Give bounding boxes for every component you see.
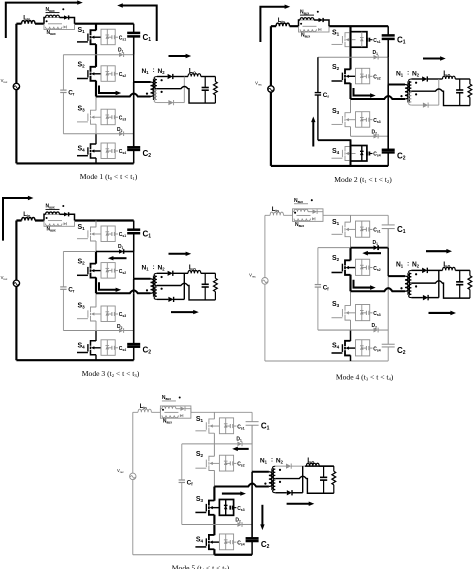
secondary dot (top) xyxy=(279,469,281,471)
wire: bottom rail (right) xyxy=(351,165,389,167)
wire: bottom rail (left) xyxy=(133,554,215,556)
aux winding Naux (top) xyxy=(44,15,64,24)
body diode of s2 xyxy=(106,263,110,279)
wire: S3 source to D2 node xyxy=(350,127,352,137)
wire: rail primary to hump xyxy=(387,85,389,100)
svg-text:D1: D1 xyxy=(373,240,379,246)
snubber box of s2 xyxy=(219,455,233,471)
svg-text:D2: D2 xyxy=(117,324,123,330)
snubber box of s3 xyxy=(101,306,115,322)
current arrow: left through D1 xyxy=(367,252,381,254)
snubber box of s1 xyxy=(101,226,115,242)
wire: S1 drain from top rail xyxy=(95,221,97,228)
current arrow: up through Cf xyxy=(312,121,314,147)
transformer primary N1 xyxy=(134,82,154,96)
wire: Cf bottom return to S4 xyxy=(318,140,351,147)
wire: left input rail xyxy=(270,26,272,166)
svg-text:S3: S3 xyxy=(196,496,204,503)
diode DR2 xyxy=(157,297,184,302)
wire: S1 source to S2 drain xyxy=(213,433,215,444)
aux block outline xyxy=(44,214,75,226)
switch S4 MOSFET xyxy=(195,535,219,549)
wire: S2 source down xyxy=(95,81,97,97)
secondary dot (top) xyxy=(415,273,417,275)
snubber box of s1 xyxy=(101,29,115,45)
wire: top rail xyxy=(271,25,388,27)
capacitor C1 xyxy=(127,24,140,55)
wire: rail hump to C2 xyxy=(133,97,135,148)
resistor RL (load) xyxy=(213,273,217,300)
wire: S3 source to D2 node xyxy=(95,321,97,331)
snubber capacitor Cs4 xyxy=(367,152,373,156)
inductor Lin xyxy=(138,409,151,412)
wire: S1 source to S2 drain xyxy=(95,44,97,55)
diode Daux2 xyxy=(64,26,67,29)
svg-text:N2: N2 xyxy=(158,265,166,272)
wire: bottom rail (right) xyxy=(214,554,252,556)
primary polarity dot xyxy=(400,287,402,289)
aux winding Naux (bottom) xyxy=(162,415,178,417)
aux polarity dot (top) xyxy=(300,23,302,25)
svg-text:Naux: Naux xyxy=(47,227,56,233)
aux core bar xyxy=(48,220,62,222)
svg-text:Naux: Naux xyxy=(46,204,55,210)
transformer secondary N2 (top) xyxy=(409,270,412,283)
aux core bar xyxy=(164,411,178,413)
current arrow: left through D1 xyxy=(237,448,249,450)
capacitor Co xyxy=(456,270,463,298)
transformer secondary N2 (bottom) xyxy=(154,90,157,103)
inductor Lo xyxy=(188,74,201,77)
capacitor Co xyxy=(456,79,463,106)
current arrow: left through D1 xyxy=(112,257,126,259)
wire: DR2 cathode up to output node xyxy=(183,273,185,299)
svg-text:S4: S4 xyxy=(78,146,86,153)
snubber box of s2 xyxy=(101,66,115,82)
aux winding Naux (top) xyxy=(160,406,180,412)
wire: top rail xyxy=(16,23,133,25)
source Vrec symbol xyxy=(13,83,19,89)
inductor Lo xyxy=(443,76,456,79)
wire: S2 source down xyxy=(349,275,351,292)
diode Daux2 xyxy=(64,222,67,225)
svg-text:Lo: Lo xyxy=(189,68,196,75)
svg-text:Naux: Naux xyxy=(163,419,172,425)
transformer core xyxy=(152,79,154,100)
snubber capacitor Cs2 xyxy=(362,265,373,269)
switch S3 MOSFET xyxy=(332,113,356,127)
switch S1 MOSFET xyxy=(332,222,356,237)
transformer secondary N2 (bottom) xyxy=(154,287,157,300)
wire: center tap return (hops over) xyxy=(157,283,216,300)
wire: S2 source down xyxy=(213,470,215,486)
svg-text:Mode 4 (t3 < t < t4): Mode 4 (t3 < t < t4) xyxy=(336,372,394,381)
wire: node A to S2 drain xyxy=(349,57,351,69)
svg-text:S1: S1 xyxy=(196,416,204,423)
snubber box of s3 xyxy=(356,112,370,128)
capacitor Cf xyxy=(60,55,66,134)
svg-text:N1: N1 xyxy=(260,457,268,464)
wire aux top to right edge xyxy=(317,212,323,216)
svg-text::: : xyxy=(407,71,409,77)
switch S1 MOSFET xyxy=(332,33,356,47)
transformer secondary N2 (bottom) xyxy=(409,93,412,106)
aux block outline xyxy=(44,18,75,30)
svg-text:S2: S2 xyxy=(196,451,204,458)
wire: S1 source to S2 drain xyxy=(95,241,97,252)
wire: bottom rail (right) xyxy=(96,359,134,361)
svg-text:Mode 2 (t1 < t < t2): Mode 2 (t1 < t < t2) xyxy=(334,175,392,184)
wire aux top to right edge xyxy=(323,20,329,26)
svg-text:S1: S1 xyxy=(78,224,86,231)
switch S4 MOSFET xyxy=(332,341,356,356)
svg-text:Naux: Naux xyxy=(300,9,309,15)
svg-text:Cs4: Cs4 xyxy=(119,149,127,155)
svg-text::: : xyxy=(153,68,155,74)
svg-text:S4: S4 xyxy=(196,537,204,544)
snubber capacitor Cs3 xyxy=(107,115,118,119)
transformer secondary N2 (bottom) xyxy=(273,480,276,493)
snubber capacitor Cs2 xyxy=(107,72,118,76)
svg-text:Mode 5 (t4 < t < t5): Mode 5 (t4 < t < t5) xyxy=(172,563,230,569)
capacitor Cf xyxy=(179,444,185,525)
wire: S4 source to bottom rail xyxy=(350,355,352,361)
svg-text:D2: D2 xyxy=(117,127,123,133)
wire: rail C1 to D1 xyxy=(133,36,135,54)
wire: node A to S2 drain xyxy=(349,248,351,261)
body diode of s2 xyxy=(360,259,364,275)
wire: center tap return (hops over) xyxy=(157,87,216,104)
wire: rail hump to C2 xyxy=(387,99,389,150)
secondary dot (bottom) xyxy=(415,93,417,95)
svg-text:D1: D1 xyxy=(373,50,379,56)
switch S1 MOSFET xyxy=(77,227,101,241)
wire: DR2 cathode up to output node xyxy=(438,270,440,297)
wire: node A to S2 drain xyxy=(95,55,97,67)
primary polarity dot xyxy=(146,93,148,95)
wire: S3 source to D2 node xyxy=(95,124,97,134)
wire: S1 drain from top rail xyxy=(213,412,215,419)
wire: S1 drain from top rail xyxy=(350,215,352,222)
snubber capacitor Cs3 xyxy=(362,118,373,122)
snubber capacitor Cs3 xyxy=(362,311,373,315)
primary polarity dot xyxy=(146,289,148,291)
svg-text:Cs3: Cs3 xyxy=(237,506,244,512)
snubber capacitor Cs2 xyxy=(226,461,237,465)
wire: S4 source to bottom rail xyxy=(95,158,97,164)
body diode of s1 xyxy=(224,418,228,434)
current arrow: input loop along top xyxy=(6,3,78,38)
switch S3 MOSFET xyxy=(332,306,356,321)
wire: DR2 cathode up to output node xyxy=(183,77,185,103)
switch S4 MOSFET xyxy=(77,144,101,158)
svg-text:Vrec: Vrec xyxy=(249,272,256,278)
diode D2 xyxy=(96,131,134,136)
wire: rail D1 to primary top xyxy=(133,55,135,82)
svg-text:N1: N1 xyxy=(142,265,150,272)
transformer core xyxy=(407,81,409,102)
wire: S3 source to D2 node xyxy=(350,320,352,330)
primary polarity dot xyxy=(264,482,266,484)
svg-text:Cs3: Cs3 xyxy=(119,115,127,121)
aux winding Naux (top) xyxy=(44,212,64,221)
svg-text:N1: N1 xyxy=(396,261,404,268)
snubber capacitor Cs2 xyxy=(107,269,118,273)
wire: rail primary to hump xyxy=(133,82,135,97)
current arrow: output current xyxy=(169,55,187,57)
wire: Lo to load xyxy=(201,76,216,78)
svg-text:Lo: Lo xyxy=(443,70,450,77)
wire: rail D1 to primary top xyxy=(387,248,389,276)
wire: D2 line left part (to Cf bottom) xyxy=(182,523,215,525)
diode DR1 xyxy=(157,74,188,79)
snubber box of s3 xyxy=(356,304,370,320)
snubber box of s4 xyxy=(356,340,370,356)
snubber box of s2 xyxy=(356,68,370,84)
body diode of s2 xyxy=(360,68,364,84)
wire: node A to S2 drain xyxy=(95,252,97,264)
body diode of s3 xyxy=(360,112,364,128)
snubber capacitor Cs1 xyxy=(362,227,373,231)
switch S1 MOSFET xyxy=(77,30,101,44)
capacitor C1 xyxy=(382,26,395,57)
wire: Lo to load xyxy=(319,465,334,467)
capacitor Co xyxy=(202,273,209,300)
diode DR1 xyxy=(411,268,442,273)
body diode of s4 xyxy=(224,534,228,550)
resistor RL (load) xyxy=(468,79,472,106)
body diode of s1 xyxy=(360,221,364,237)
wire: rail primary to hump xyxy=(251,472,253,487)
wire: rail D1 to primary top xyxy=(133,252,135,279)
source Vrec symbol xyxy=(268,86,274,92)
wire: rail C1 to D1 xyxy=(251,425,253,444)
switch S4 MOSFET xyxy=(332,147,356,161)
wire: node A to S2 drain xyxy=(213,444,215,456)
resistor RL (load) xyxy=(213,77,217,104)
diode D2 xyxy=(214,522,252,527)
svg-text:Vrec: Vrec xyxy=(1,275,8,281)
current arrow: output current xyxy=(423,58,441,60)
snubber box of s1 xyxy=(219,418,233,434)
svg-text:Cs1: Cs1 xyxy=(373,228,380,234)
current arrow: input loop up the left side xyxy=(260,7,285,42)
snubber box of s4 xyxy=(101,143,115,159)
secondary dot (top) xyxy=(161,276,163,278)
wire: D2 node to S4 drain xyxy=(350,140,352,147)
svg-text:N1: N1 xyxy=(396,70,404,77)
snubber box of s4 xyxy=(351,146,367,162)
aux polarity dot (top) xyxy=(46,20,48,22)
source Vrec symbol xyxy=(130,473,136,480)
secondary dot (top) xyxy=(161,79,163,81)
capacitor C1 xyxy=(382,215,395,247)
current arrow: through S2 into primary xyxy=(99,86,117,94)
body diode of s3 xyxy=(224,499,228,515)
svg-text:S1: S1 xyxy=(78,27,86,34)
transformer secondary N2 (top) xyxy=(273,466,276,478)
wire: rail C1 to D1 xyxy=(133,233,135,251)
inductor Lin xyxy=(270,212,283,215)
snubber capacitor Cs4 xyxy=(107,346,118,350)
svg-text:Lo: Lo xyxy=(307,457,314,464)
snubber box of s3 xyxy=(101,109,115,125)
svg-text:N2: N2 xyxy=(412,261,420,268)
svg-text:Cs3: Cs3 xyxy=(119,312,127,318)
switch S4 MOSFET xyxy=(77,341,101,355)
diode DR2 xyxy=(157,100,184,105)
transformer primary N1 xyxy=(388,85,408,99)
transformer secondary N2 (bottom) xyxy=(409,284,412,297)
svg-text:Naux: Naux xyxy=(301,32,310,38)
wire: D1 line left part (to Cf top) xyxy=(318,247,351,249)
capacitor Cf xyxy=(60,252,66,331)
current arrow: output current (bottom) xyxy=(171,311,194,313)
diode Daux2 xyxy=(318,28,321,31)
wire: S2 node to S3 drain xyxy=(350,291,352,305)
transformer primary N1 xyxy=(388,276,408,291)
svg-text:Cs2: Cs2 xyxy=(237,462,244,468)
svg-text:Cs1: Cs1 xyxy=(373,38,381,44)
svg-text::: : xyxy=(407,261,409,268)
snubber capacitor Cs4 xyxy=(107,149,118,153)
svg-text:Cf: Cf xyxy=(323,284,330,291)
diode Daux1 xyxy=(313,209,318,213)
aux winding Naux (bottom) xyxy=(46,224,62,226)
switch S2 MOSFET xyxy=(195,456,219,470)
body diode of s3 xyxy=(106,306,110,322)
capacitor C2 xyxy=(382,344,395,361)
aux core bar xyxy=(48,23,62,25)
current arrow: input loop up the left side xyxy=(3,198,29,241)
capacitor Co xyxy=(202,77,209,104)
snubber box of s4 xyxy=(101,340,115,356)
transformer core xyxy=(407,273,409,295)
svg-text:S2: S2 xyxy=(78,62,86,69)
svg-text:S2: S2 xyxy=(78,258,86,265)
switch S2 MOSFET xyxy=(332,260,356,275)
wire: D1 line left part (to Cf top) xyxy=(182,443,215,445)
svg-text:S3: S3 xyxy=(78,106,86,113)
diode Daux2 xyxy=(312,217,315,220)
svg-text:S3: S3 xyxy=(78,302,86,309)
aux winding Naux (top) xyxy=(299,18,319,27)
current arrow: down through rail xyxy=(261,505,263,526)
inductor Lin xyxy=(22,217,35,220)
snubber capacitor Cs1 xyxy=(107,35,118,39)
transformer primary N1 xyxy=(134,279,154,293)
wire: S2 source to primary (hops over rail) xyxy=(96,94,151,97)
secondary dot (bottom) xyxy=(161,288,163,290)
wire: S4 bypass (through Cs4 path) xyxy=(350,147,352,161)
capacitor C2 xyxy=(127,344,140,360)
wire: left input rail xyxy=(132,412,134,554)
inductor Lin xyxy=(22,21,35,24)
wire: left input rail xyxy=(264,215,266,361)
snubber capacitor Cs3 xyxy=(230,506,236,510)
wire: S2 node to S3 drain xyxy=(95,97,97,111)
inductor Lo xyxy=(443,267,456,270)
aux polarity dot (top) xyxy=(162,409,164,411)
svg-text::: : xyxy=(271,458,273,464)
svg-text:Naux: Naux xyxy=(46,7,55,13)
switch S2 MOSFET xyxy=(77,67,101,81)
switch S3 MOSFET xyxy=(195,501,219,515)
snubber box of s3 xyxy=(219,499,233,515)
wire: S1 bypass (through Cs1 path) xyxy=(349,33,351,47)
body diode of s3 xyxy=(360,304,364,320)
wire: center tap return (hops over) xyxy=(275,476,334,493)
svg-text:N2: N2 xyxy=(412,70,420,77)
diode DR1 xyxy=(157,271,188,276)
svg-text:Cs1: Cs1 xyxy=(119,232,127,238)
svg-text:Vrec: Vrec xyxy=(255,81,262,87)
current arrow: into primary xyxy=(222,493,242,495)
aux block outline xyxy=(293,209,324,222)
svg-text:S4: S4 xyxy=(332,148,340,155)
wire: D1 line left part (to Cf top) xyxy=(63,251,96,253)
aux winding Naux (bottom) xyxy=(294,219,310,221)
wire aux top to right edge xyxy=(69,18,75,24)
wire aux top to right edge xyxy=(185,409,191,413)
wire: center tap return (hops over) xyxy=(411,281,470,298)
wire: center tap return (hops over) xyxy=(411,89,470,106)
wire: D2 line left part (to Cf bottom) xyxy=(318,329,351,331)
diode D1 xyxy=(351,245,389,250)
current arrow: through S2 into primary xyxy=(354,88,372,96)
svg-text:Lo: Lo xyxy=(189,265,196,272)
wire: bottom rail (right) xyxy=(351,360,389,362)
svg-text:Lin: Lin xyxy=(272,206,280,213)
svg-text:Cf: Cf xyxy=(187,480,194,487)
wire: top rail xyxy=(133,411,252,413)
wire: S4 source to bottom rail xyxy=(213,549,215,555)
diode D1 xyxy=(96,249,134,254)
wire: S1 source to S2 drain xyxy=(349,47,351,58)
diode Daux1 xyxy=(180,407,185,411)
capacitor Cf xyxy=(315,248,321,330)
wire: S3 source to D2 node xyxy=(213,515,215,525)
transformer primary N1 xyxy=(252,472,272,487)
wire: Lo output segment (dark) xyxy=(305,465,334,467)
svg-text:Naux: Naux xyxy=(295,222,304,228)
current arrow: through S2 into primary xyxy=(99,282,117,290)
wire: DR2 cathode up to output node xyxy=(302,466,304,493)
wire: rail C1 to D1 xyxy=(387,39,389,57)
snubber box of s2 xyxy=(101,263,115,279)
wire: S2 source to primary (hops over rail) xyxy=(351,288,406,291)
svg-text:Cs2: Cs2 xyxy=(373,266,380,272)
capacitor Cf xyxy=(315,57,321,140)
capacitor C2 xyxy=(127,147,140,163)
transformer secondary N2 (top) xyxy=(409,79,412,91)
wire: bottom rail (left) xyxy=(265,360,351,362)
inductor Lo xyxy=(306,463,319,466)
inductor Lo xyxy=(188,270,201,273)
wire: D1 line left part (to Cf top) xyxy=(63,54,96,56)
diode DR2 xyxy=(411,103,438,108)
wire: left input rail xyxy=(15,221,17,361)
svg-text:Cs4: Cs4 xyxy=(237,540,244,546)
snubber capacitor Cs2 xyxy=(362,74,373,78)
wire: D2 node to S4 drain xyxy=(213,524,215,535)
switch S3 MOSFET xyxy=(77,307,101,321)
svg-text:Cs1: Cs1 xyxy=(237,424,244,430)
current arrow: output current (bottom) xyxy=(429,312,452,314)
body diode of s4 xyxy=(360,340,364,356)
svg-text:N2: N2 xyxy=(276,457,284,464)
wire: rail hump to C2 xyxy=(387,291,389,344)
